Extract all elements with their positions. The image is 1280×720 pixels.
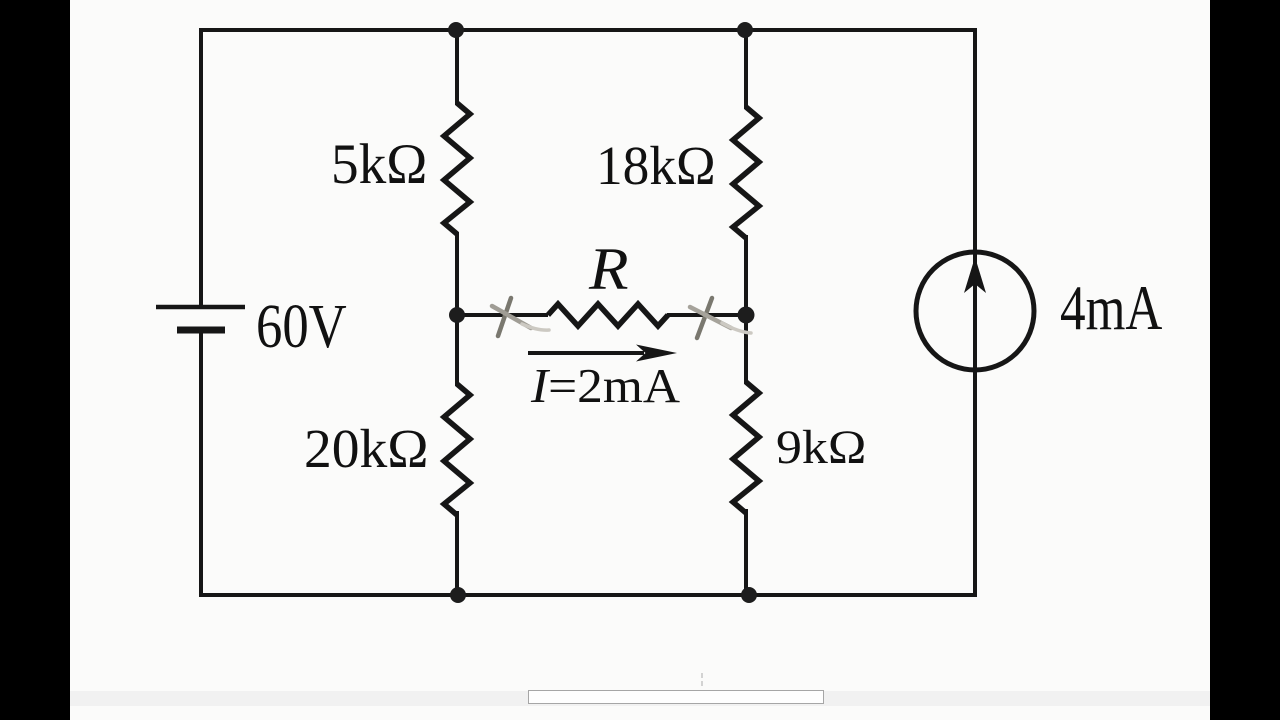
svg-text:I=2mA: I=2mA [530,358,680,413]
svg-text:R: R [588,235,629,302]
svg-text:20kΩ: 20kΩ [304,418,429,479]
svg-text:9kΩ: 9kΩ [776,420,866,474]
svg-text:60V: 60V [256,293,347,361]
svg-text:4mA: 4mA [1060,272,1163,344]
svg-text:18kΩ: 18kΩ [596,135,716,196]
svg-text:5kΩ: 5kΩ [331,133,427,196]
